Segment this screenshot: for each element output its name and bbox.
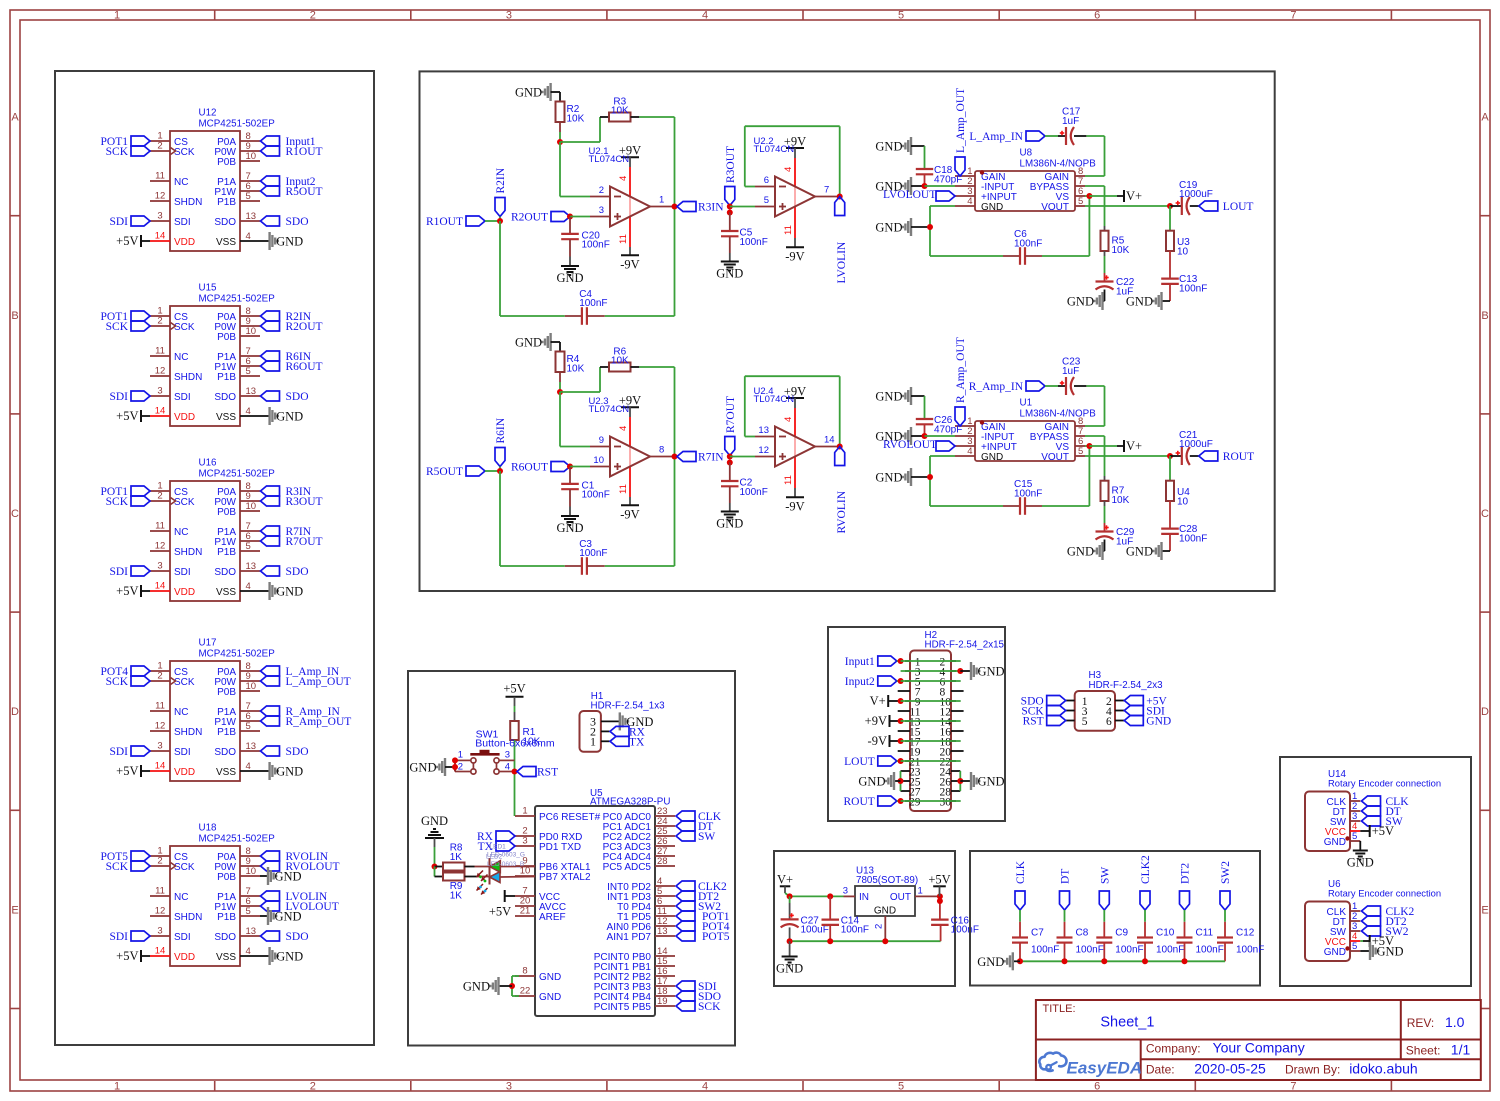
- svg-text:4: 4: [246, 231, 251, 242]
- svg-text:19: 19: [657, 996, 668, 1007]
- svg-text:GND: GND: [275, 910, 302, 924]
- net flag SCK (pin 2 U16): [106, 496, 150, 508]
- ground flag at H2 pins 3-4: [901, 662, 1005, 680]
- svg-text:10K: 10K: [1112, 245, 1130, 256]
- svg-text:100nF: 100nF: [1236, 945, 1264, 956]
- svg-text:1: 1: [114, 10, 120, 22]
- svg-text:100nF: 100nF: [1196, 945, 1224, 956]
- regulator U13 7805(SOT-89): [843, 866, 940, 942]
- +5V power flag at R1: [503, 682, 525, 706]
- wire to op-amp inverting input: [560, 392, 590, 447]
- svg-text:GND: GND: [515, 336, 542, 350]
- resistor U3 10: [1166, 206, 1190, 257]
- node: [827, 893, 833, 899]
- net flag R6IN (pin 7 U15): [261, 351, 312, 363]
- net flag POT5 (pin 1 U18): [101, 851, 150, 863]
- resistor R3 10K (feedback): [600, 96, 639, 121]
- net flag (unnamed, +INPUT): [936, 441, 955, 451]
- svg-text:-9V: -9V: [785, 249, 804, 263]
- svg-text:SCK: SCK: [174, 147, 195, 158]
- svg-text:RVOLOUT: RVOLOUT: [883, 439, 937, 451]
- svg-text:GND: GND: [981, 452, 1003, 463]
- net flag R_Amp_IN (pin 7 U17): [261, 706, 341, 718]
- node: op-amp B output: [837, 194, 843, 200]
- svg-text:11: 11: [618, 484, 629, 494]
- capacitor C17 1uF (polarized): [1045, 107, 1086, 146]
- V+ power flag at H2: [870, 694, 961, 708]
- svg-text:GND: GND: [874, 905, 896, 916]
- node: [922, 183, 928, 189]
- header H3 HDR-F-2.54_2x3: [1066, 670, 1163, 731]
- net flag L_Amp_IN: [969, 131, 1045, 143]
- svg-text:3: 3: [157, 561, 162, 572]
- svg-text:TL074CN: TL074CN: [754, 394, 795, 405]
- net flag ROUT at H2: [843, 796, 960, 808]
- net flag DT (vertical): [1060, 869, 1072, 910]
- ground flag at VSS U12: [260, 232, 303, 250]
- svg-text:5: 5: [1352, 941, 1357, 952]
- wire / net label RVOLOUT: [883, 436, 955, 451]
- svg-text:V+: V+: [870, 694, 886, 708]
- net flag R3OUT (pin 9 U16): [261, 496, 323, 508]
- svg-text:GND: GND: [276, 585, 303, 599]
- capacitor C11 100nF: [1177, 910, 1224, 961]
- svg-text:SCK: SCK: [174, 862, 195, 873]
- svg-text:1: 1: [918, 885, 923, 896]
- svg-text:1uF: 1uF: [1062, 116, 1079, 127]
- net flag R7IN (pin 7 U16): [261, 526, 312, 538]
- svg-text:MCP4251-502EP: MCP4251-502EP: [199, 649, 276, 660]
- svg-text:1: 1: [590, 734, 596, 748]
- svg-text:TL074CN: TL074CN: [589, 404, 630, 415]
- svg-text:P0B: P0B: [217, 332, 236, 343]
- node: input junction: [497, 468, 503, 474]
- ground flag: [1126, 292, 1170, 310]
- svg-text:2: 2: [157, 141, 162, 152]
- svg-text:GND: GND: [276, 950, 303, 964]
- digipot U12: [150, 108, 275, 252]
- net flag CLK2 at U5: [676, 881, 727, 893]
- svg-text:VSS: VSS: [216, 952, 236, 963]
- V+ power flag: [777, 873, 793, 897]
- wire: VOUT: [1085, 455, 1170, 457]
- net flag Input1 (pin 8 U12): [261, 136, 316, 148]
- svg-text:LM386N-4/NOPB: LM386N-4/NOPB: [1020, 409, 1097, 420]
- svg-text:C7: C7: [1031, 927, 1044, 938]
- +5V power flag at VDD U17: [116, 764, 150, 778]
- net flag SDO (pin 13 U16): [261, 566, 309, 578]
- wire: [570, 466, 590, 468]
- wire: [570, 216, 590, 218]
- svg-text:100nF: 100nF: [1014, 488, 1042, 499]
- svg-text:SW: SW: [1099, 867, 1111, 884]
- svg-text:14: 14: [155, 946, 166, 957]
- net flag LVOLIN (vertical): [835, 197, 849, 284]
- net flag L_Amp_OUT (pin 9 U17): [261, 676, 351, 688]
- wire: [1042, 446, 1089, 506]
- svg-text:100nF: 100nF: [740, 487, 768, 498]
- net flag LVOLOUT (pin 6 U18): [261, 901, 339, 913]
- ground flag at U5 GND pins: [463, 976, 519, 996]
- svg-text:GND: GND: [875, 471, 902, 485]
- svg-text:U17: U17: [199, 638, 217, 649]
- svg-text:R5OUT: R5OUT: [286, 186, 323, 198]
- svg-text:SHDN: SHDN: [174, 197, 202, 208]
- svg-text:6: 6: [764, 175, 769, 186]
- svg-text:13: 13: [246, 561, 257, 572]
- svg-text:SDO: SDO: [286, 391, 309, 403]
- svg-text:idoko.abuh: idoko.abuh: [1349, 1061, 1418, 1077]
- svg-text:R6OUT: R6OUT: [286, 361, 323, 373]
- svg-text:4: 4: [783, 417, 794, 422]
- svg-text:1K: 1K: [450, 890, 463, 901]
- net flag L_Amp_OUT (vertical, pin 1): [955, 88, 967, 176]
- svg-text:2: 2: [157, 491, 162, 502]
- ground flag: [1126, 542, 1170, 560]
- resistor R9 1K: [435, 873, 465, 902]
- +5V power flag at VDD U16: [116, 584, 150, 598]
- +9V power flag at H2: [865, 714, 961, 728]
- svg-text:GND: GND: [1146, 716, 1171, 728]
- container box: main connector section: [828, 627, 1005, 821]
- svg-text:100nF: 100nF: [582, 490, 610, 501]
- svg-text:TL074CN: TL074CN: [754, 144, 795, 155]
- svg-text:7: 7: [1290, 1081, 1296, 1093]
- container box: filter/amplifier section: [420, 71, 1275, 591]
- svg-text:R5OUT: R5OUT: [426, 466, 463, 478]
- net flag POT4 (pin 1 U17): [101, 666, 150, 678]
- node: VS: [1086, 193, 1092, 199]
- svg-text:P1B: P1B: [217, 547, 236, 558]
- wire to GAIN pin 8: [1085, 136, 1105, 176]
- net flag RVOLOUT (pin 9 U18): [261, 861, 340, 873]
- LED light arrows: [477, 871, 488, 895]
- net flag SW2 (vertical): [1220, 861, 1232, 910]
- svg-text:100nF: 100nF: [951, 925, 979, 936]
- net flag R1OUT (pin 9 U12): [261, 146, 323, 158]
- ground flag at R2 top: [515, 83, 560, 101]
- svg-text:2: 2: [157, 671, 162, 682]
- svg-text:100nF: 100nF: [1014, 238, 1042, 249]
- svg-text:13: 13: [246, 926, 257, 937]
- -9V power at op-amp A: [620, 497, 639, 521]
- header H1 HDR-F-2.54_1x3: [580, 691, 666, 752]
- svg-text:SCK: SCK: [106, 321, 129, 333]
- svg-text:SHDN: SHDN: [174, 912, 202, 923]
- svg-text:VDD: VDD: [174, 237, 195, 248]
- svg-text:1K: 1K: [450, 852, 463, 863]
- net flag SCK at U5: [676, 1001, 721, 1013]
- wire to feedback resistor: [560, 367, 600, 392]
- svg-text:LM386N-4/NOPB: LM386N-4/NOPB: [1020, 159, 1097, 170]
- svg-text:3: 3: [157, 386, 162, 397]
- svg-text:GND: GND: [1126, 295, 1153, 309]
- net flag R1OUT: [426, 216, 485, 228]
- net flag SDI (pin 3 U16): [109, 566, 150, 578]
- -9V power at op-amp B: [785, 488, 804, 513]
- svg-text:RVOLIN: RVOLIN: [836, 490, 848, 533]
- svg-text:GND: GND: [276, 765, 303, 779]
- svg-text:12: 12: [155, 191, 166, 202]
- svg-text:3: 3: [506, 1081, 512, 1093]
- svg-text:VDD: VDD: [174, 767, 195, 778]
- svg-text:PD1 TXD: PD1 TXD: [539, 842, 581, 853]
- net flag R_Amp_OUT (vertical, pin 1): [955, 337, 967, 426]
- nodes at op-amp B input: [727, 204, 733, 216]
- digipot U17: [150, 638, 275, 782]
- svg-text:R3IN: R3IN: [698, 202, 724, 214]
- svg-text:Sheet:: Sheet:: [1406, 1044, 1441, 1058]
- svg-text:HDR-F-2.54_2x15: HDR-F-2.54_2x15: [925, 639, 1005, 650]
- svg-text:GND: GND: [539, 972, 561, 983]
- net flag DT at U14: [1362, 806, 1401, 818]
- svg-text:SDI: SDI: [174, 217, 191, 228]
- net flag DT2 (vertical): [1180, 863, 1192, 910]
- svg-text:4: 4: [618, 426, 629, 431]
- ground flag (top left): [875, 387, 924, 405]
- svg-text:P0B: P0B: [217, 872, 236, 883]
- svg-text:3: 3: [157, 741, 162, 752]
- svg-text:R7OUT: R7OUT: [725, 396, 737, 433]
- resistor R5 10K: [1085, 186, 1130, 256]
- +5V power flag at U14: [1360, 824, 1394, 838]
- svg-text:100nF: 100nF: [579, 298, 607, 309]
- svg-text:NC: NC: [174, 707, 188, 718]
- resistor R6 10K (feedback): [600, 346, 639, 371]
- net flag SDO (pin 13 U17): [261, 746, 309, 758]
- net flag R_Amp_IN: [969, 381, 1045, 393]
- wire: feedback to output node: [639, 117, 674, 207]
- svg-text:Your Company: Your Company: [1213, 1040, 1305, 1056]
- node: input junction: [497, 218, 503, 224]
- svg-text:3: 3: [506, 10, 512, 22]
- node: op-amp A output: [672, 204, 678, 210]
- capacitor C1 100nF: [561, 467, 610, 507]
- svg-text:CLK2: CLK2: [1140, 855, 1152, 884]
- net flag R_Amp_OUT (pin 6 U17): [261, 716, 352, 728]
- wire: GND pin 4 loop: [930, 456, 1003, 506]
- net flag CLK at U5: [676, 811, 722, 823]
- wire: [434, 867, 436, 877]
- svg-text:10: 10: [246, 326, 257, 337]
- capacitor C16 100nF: [931, 901, 979, 936]
- ground flag at VSS U15: [260, 407, 303, 425]
- svg-text:MCP4251-502EP: MCP4251-502EP: [199, 294, 276, 305]
- svg-text:4: 4: [246, 761, 251, 772]
- svg-text:GND: GND: [463, 980, 490, 994]
- resistor R2 10K: [556, 102, 585, 125]
- svg-text:U1: U1: [1020, 398, 1033, 409]
- ground flag: [1067, 540, 1105, 561]
- svg-text:R3OUT: R3OUT: [725, 146, 737, 183]
- net flag LOUT: [1199, 201, 1254, 213]
- svg-text:+5V: +5V: [503, 682, 525, 696]
- svg-text:MCP4251-502EP: MCP4251-502EP: [199, 119, 276, 130]
- capacitor C18 470pF: [916, 146, 963, 186]
- node: [922, 433, 928, 439]
- svg-text:12: 12: [155, 721, 166, 732]
- capacitor C28 100nF: [1161, 501, 1207, 551]
- svg-text:LED2: LED2: [486, 854, 503, 861]
- wire: input node down to C3: [500, 471, 565, 566]
- svg-text:1: 1: [659, 195, 664, 206]
- svg-text:29: 29: [909, 796, 921, 808]
- svg-text:GND: GND: [1347, 856, 1374, 870]
- node: output: [1167, 453, 1173, 459]
- svg-text:Company:: Company:: [1146, 1042, 1201, 1056]
- net flag LVOLIN (pin 7 U18): [261, 891, 328, 903]
- +9V power at op-amp B: [784, 385, 806, 409]
- svg-text:GND: GND: [875, 390, 902, 404]
- svg-text:+5V: +5V: [116, 949, 138, 963]
- svg-text:5: 5: [246, 366, 251, 377]
- wire: [559, 122, 561, 142]
- svg-text:13: 13: [246, 741, 257, 752]
- capacitor C19 1000uF (polarized output): [1170, 180, 1213, 215]
- svg-text:14: 14: [155, 231, 166, 242]
- svg-text:+5V: +5V: [116, 584, 138, 598]
- svg-text:R7OUT: R7OUT: [286, 536, 323, 548]
- net flag POT1 at U5: [676, 911, 730, 923]
- +5V power at U5 VCC: [489, 890, 515, 919]
- net flag RST at H3: [1023, 716, 1066, 728]
- svg-text:SW: SW: [698, 831, 715, 843]
- svg-text:L_Amp_OUT: L_Amp_OUT: [955, 88, 967, 153]
- svg-text:R7IN: R7IN: [698, 452, 724, 464]
- svg-text:+5V: +5V: [116, 764, 138, 778]
- svg-text:SDI: SDI: [109, 216, 128, 228]
- net flag RST: [517, 767, 558, 779]
- wire/junction at SW1 pins 1-2: [452, 757, 458, 771]
- svg-text:4: 4: [246, 406, 251, 417]
- +9V power at op-amp A: [619, 394, 641, 417]
- header H2 HDR-F-2.54_2x15: [898, 630, 1005, 811]
- svg-text:B: B: [1481, 310, 1488, 322]
- title block: [1036, 1000, 1481, 1080]
- net flag TX at U5 pin 3: [478, 841, 515, 853]
- svg-text:GND: GND: [978, 775, 1005, 789]
- svg-text:14: 14: [824, 435, 835, 446]
- svg-text:6: 6: [1094, 10, 1100, 22]
- capacitor C14 100nF: [822, 896, 870, 941]
- ground (earth) at U14: [1347, 841, 1374, 870]
- svg-text:5: 5: [246, 541, 251, 552]
- svg-text:SDO: SDO: [214, 747, 236, 758]
- op-amp U2.3 TL074CN: [589, 396, 675, 477]
- svg-text:GND: GND: [875, 221, 902, 235]
- svg-text:Input2: Input2: [845, 676, 875, 688]
- svg-text:10: 10: [246, 866, 257, 877]
- svg-text:3: 3: [843, 885, 848, 896]
- svg-text:R2OUT: R2OUT: [511, 212, 548, 224]
- svg-text:REV:: REV:: [1407, 1016, 1435, 1030]
- svg-text:RST: RST: [1023, 716, 1044, 728]
- svg-text:GND: GND: [858, 775, 885, 789]
- capacitor C22 1uF (polarized): [1096, 251, 1135, 297]
- net flag POT5 at U5: [676, 931, 730, 943]
- svg-text:VSS: VSS: [216, 587, 236, 598]
- svg-text:1000uF: 1000uF: [1179, 439, 1213, 450]
- node: [567, 464, 573, 470]
- net flag R2IN (pin 8 U15): [261, 311, 312, 323]
- svg-text:D: D: [1481, 706, 1489, 718]
- wire to op-amp inverting input: [560, 142, 590, 197]
- digipot U15: [150, 283, 275, 427]
- op-amp U2.4 TL074CN: [754, 386, 840, 467]
- net flag GND at H3: [1124, 716, 1171, 728]
- svg-text:13: 13: [246, 211, 257, 222]
- svg-text:10: 10: [593, 455, 604, 466]
- net flag POT1 (pin 1 U15): [101, 311, 150, 323]
- svg-text:2: 2: [458, 761, 463, 772]
- svg-text:3: 3: [505, 749, 510, 760]
- nodes at OUT: [937, 893, 943, 904]
- svg-text:SDO: SDO: [214, 932, 236, 943]
- net flag POT4 at U5: [676, 921, 730, 933]
- ground (earth): [776, 941, 803, 975]
- net flag Input2 (pin 7 U12): [261, 176, 316, 188]
- svg-text:6: 6: [1094, 1081, 1100, 1093]
- svg-text:12: 12: [155, 906, 166, 917]
- svg-text:SDI: SDI: [109, 746, 128, 758]
- resistor R1 10K: [510, 721, 540, 747]
- svg-text:LOUT: LOUT: [1223, 201, 1254, 213]
- wire: [514, 706, 516, 721]
- capacitor C15 100nF (bypass): [1003, 479, 1042, 515]
- net flag TX at H1: [610, 736, 645, 748]
- net flag R3IN (pin 8 U16): [261, 486, 312, 498]
- svg-text:P1B: P1B: [217, 912, 236, 923]
- svg-text:1: 1: [522, 806, 527, 817]
- svg-text:HDR-F-2.54_2x3: HDR-F-2.54_2x3: [1089, 680, 1164, 691]
- svg-text:GND: GND: [556, 521, 583, 535]
- wire: GND pin 4 loop: [930, 206, 1003, 256]
- wire: feedback loop op-amp B: [745, 376, 840, 446]
- net flag R5OUT: [426, 466, 485, 478]
- svg-text:LOUT: LOUT: [844, 756, 875, 768]
- ground: [716, 503, 743, 531]
- V+ power flag: [1089, 189, 1142, 203]
- svg-text:HDR-F-2.54_1x3: HDR-F-2.54_1x3: [591, 701, 666, 712]
- svg-text:GND: GND: [1126, 545, 1153, 559]
- svg-text:8: 8: [659, 445, 664, 456]
- capacitor C3 100nF (high-pass): [565, 539, 608, 575]
- svg-text:R2OUT: R2OUT: [286, 321, 323, 333]
- svg-text:10K: 10K: [567, 113, 585, 124]
- pin 11 (V-) op-amp A: [618, 457, 630, 498]
- svg-text:14: 14: [155, 581, 166, 592]
- svg-text:E: E: [11, 904, 18, 916]
- svg-text:1: 1: [458, 749, 463, 760]
- net flag R6IN (vertical): [495, 417, 507, 466]
- svg-text:GND: GND: [1324, 837, 1346, 848]
- net flag +5V at H3: [1124, 696, 1167, 708]
- svg-text:100nF: 100nF: [1115, 945, 1143, 956]
- svg-text:7805(SOT-89): 7805(SOT-89): [856, 875, 918, 886]
- svg-text:SCK: SCK: [698, 1001, 721, 1013]
- ground: [556, 507, 583, 536]
- svg-text:VOUT: VOUT: [1041, 202, 1069, 213]
- svg-text:GND: GND: [716, 517, 743, 531]
- node: op-amp A output: [672, 454, 678, 460]
- svg-text:GND: GND: [1324, 947, 1346, 958]
- ground rail wire: [1020, 960, 1225, 962]
- ground flag at pin 5 U18: [260, 907, 302, 925]
- svg-text:Date:: Date:: [1146, 1063, 1175, 1077]
- capacitor C2 100nF: [721, 463, 768, 504]
- svg-text:100nF: 100nF: [1179, 533, 1207, 544]
- svg-text:P0B: P0B: [217, 507, 236, 518]
